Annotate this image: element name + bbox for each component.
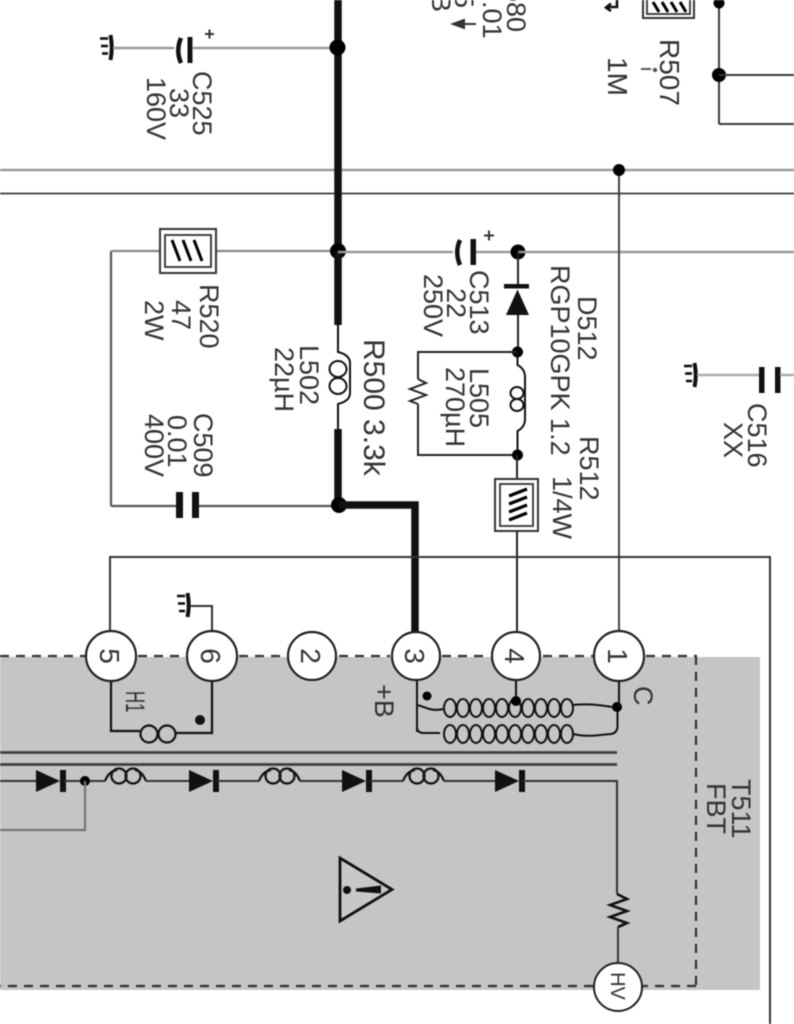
wire to HV terminal xyxy=(617,927,619,963)
node at (719,75) xyxy=(712,68,726,82)
wire y=252 from node to C513 xyxy=(338,251,453,253)
capacitor C509 xyxy=(176,492,199,518)
coil chain 1 xyxy=(105,769,146,784)
ground (C516) xyxy=(684,363,696,387)
arrowhead left small xyxy=(453,20,476,28)
dashed border top of T511 box xyxy=(0,656,697,986)
capacitor C516 xyxy=(759,367,781,393)
svg-text:5: 5 xyxy=(94,648,125,664)
wire y=251 (R520 row) xyxy=(111,250,336,252)
wire R512 to pin4 xyxy=(516,531,518,633)
wire horizontal bus y=193.5 xyxy=(0,193,794,195)
svg-text:160V: 160V xyxy=(141,77,171,140)
svg-text:22µH: 22µH xyxy=(269,347,299,412)
warning triangle xyxy=(340,858,392,921)
thick wire to pin3 xyxy=(339,505,415,633)
svg-text:C: C xyxy=(628,686,658,706)
junction dot pin4 tap xyxy=(511,696,521,706)
label R520 47 2W xyxy=(139,284,224,349)
node at top (719,3) xyxy=(714,0,725,9)
diode D512 xyxy=(504,252,529,352)
label C509 0.01 400V xyxy=(139,413,218,478)
pin 2 xyxy=(288,632,336,680)
wire corner y=124 to right edge xyxy=(719,123,794,125)
diode chain 1 xyxy=(36,770,66,792)
inductor L505 xyxy=(511,352,526,455)
pin 5 xyxy=(86,631,136,681)
diode chain 2 xyxy=(189,770,219,792)
wire node to right edge y=252 xyxy=(518,251,794,253)
svg-text:1/4W: 1/4W xyxy=(547,476,577,540)
T511 FBT highlighted gray box xyxy=(0,657,760,990)
label D512 RGP10GPK 1.2 xyxy=(545,265,602,456)
primary winding pin5-pin6 xyxy=(111,682,212,743)
label 680 .01 5V B (cut off top) xyxy=(426,0,531,39)
wire C513 to node xyxy=(476,251,516,253)
HV resistor zigzag xyxy=(610,894,627,927)
label L502 22uH xyxy=(269,345,324,412)
pin1 stub xyxy=(618,682,620,707)
node junction (517,352) xyxy=(512,347,523,358)
coil chain 2 xyxy=(259,769,300,784)
node junction chain (85,781) xyxy=(80,776,90,786)
diode chain 4 xyxy=(495,770,525,792)
svg-text:RGP10GPK 1.2: RGP10GPK 1.2 xyxy=(545,265,575,456)
wire drop to left edge xyxy=(0,781,85,830)
wire from left xyxy=(0,780,36,782)
wire ground to pin6 xyxy=(190,606,212,633)
label R512 1/4W xyxy=(547,436,604,540)
svg-text:H1: H1 xyxy=(120,691,150,712)
diode chain 3 xyxy=(342,770,372,792)
ground (C525) xyxy=(100,35,112,60)
inductor L502 xyxy=(330,251,351,505)
label C513 22 250V xyxy=(418,270,494,337)
winding pin3-pin1 top row xyxy=(417,681,612,732)
pin 3 xyxy=(392,632,440,680)
svg-text:270µH: 270µH xyxy=(440,367,470,447)
wire thick vertical main x=337 xyxy=(334,0,342,251)
node C junction (618,707) xyxy=(612,702,622,712)
leader dash-dot R507 xyxy=(641,68,651,70)
wire node to R512 xyxy=(516,455,518,480)
svg-text:6: 6 xyxy=(195,648,226,664)
capacitor C513 (polarized) xyxy=(457,231,494,266)
svg-text:1: 1 xyxy=(602,648,633,664)
svg-text:XX: XX xyxy=(718,422,748,458)
HV terminal circle xyxy=(594,963,642,1011)
pin 1 xyxy=(594,631,644,681)
node junction (518,252) xyxy=(511,245,526,260)
label L505 270uH xyxy=(440,367,494,447)
coil chain 3 xyxy=(403,769,444,784)
transformer core lines xyxy=(0,751,617,754)
node junction (619,170) xyxy=(613,164,625,176)
label C516 XX xyxy=(718,403,772,468)
svg-text:400V: 400V xyxy=(139,414,169,477)
wire ground to C525 xyxy=(113,47,174,49)
label C525 33 160V xyxy=(141,71,217,140)
resistor small (L505 damper) loop xyxy=(410,352,517,455)
svg-text:R512: R512 xyxy=(574,436,604,501)
polarity dot primary xyxy=(195,715,205,725)
wire y=557 horizontal (pin5 to right side) xyxy=(110,557,770,1024)
svg-text:47: 47 xyxy=(166,300,196,330)
svg-text:1M: 1M xyxy=(602,57,633,96)
winding pin3-pin1 bottom row xyxy=(417,711,618,743)
svg-text:HV: HV xyxy=(606,972,628,1000)
svg-text:R507: R507 xyxy=(654,39,685,106)
node junction at (337,47) xyxy=(330,40,346,56)
dashed border right xyxy=(695,656,697,986)
resistor R512 (fusible box) xyxy=(495,479,538,531)
wire ground to C516 xyxy=(697,374,760,376)
svg-text:+B: +B xyxy=(369,684,399,718)
fusible resistor box (top, cut off) xyxy=(643,0,694,18)
wire y=75 to right edge xyxy=(719,74,794,76)
svg-text:4: 4 xyxy=(499,648,530,664)
pin4 tap wire xyxy=(515,681,517,701)
R520 loop left wire xyxy=(110,251,112,506)
svg-text:2: 2 xyxy=(295,648,326,664)
node junction (517,455) xyxy=(512,450,523,461)
svg-text:D512: D512 xyxy=(572,296,602,361)
svg-text:3: 3 xyxy=(399,648,430,664)
wire horizontal bus y=170 xyxy=(0,169,794,172)
node junction (339,505) xyxy=(331,497,347,513)
svg-text:2W: 2W xyxy=(139,300,169,341)
svg-text:FBT: FBT xyxy=(701,783,731,834)
polarity dot left xyxy=(423,692,432,701)
svg-text:R520: R520 xyxy=(194,284,224,349)
label T511 FBT xyxy=(701,779,756,839)
pin 4 xyxy=(492,632,540,680)
wire C525 to node xyxy=(192,47,336,49)
svg-text:B: B xyxy=(426,0,456,12)
wire vertical x=719 (R507 branch) xyxy=(718,0,720,124)
wire vertical x=619 (pin1 branch) xyxy=(618,170,620,632)
resistor R520 (fusible box) xyxy=(160,229,216,273)
wire C509 row y=506 xyxy=(111,505,176,507)
svg-text:.01: .01 xyxy=(477,1,507,39)
svg-text:250V: 250V xyxy=(418,274,448,337)
arrow hook top xyxy=(606,0,617,11)
dashed border bottom xyxy=(643,985,696,987)
svg-text:R500 3.3k: R500 3.3k xyxy=(357,339,390,477)
capacitor C525 (polarized) xyxy=(178,30,214,64)
label R507 1M xyxy=(602,39,685,106)
pin 6 xyxy=(187,631,237,681)
wire to HV corner xyxy=(523,781,617,894)
ground (pin6) xyxy=(177,593,189,617)
node junction (339,251) xyxy=(330,243,346,259)
